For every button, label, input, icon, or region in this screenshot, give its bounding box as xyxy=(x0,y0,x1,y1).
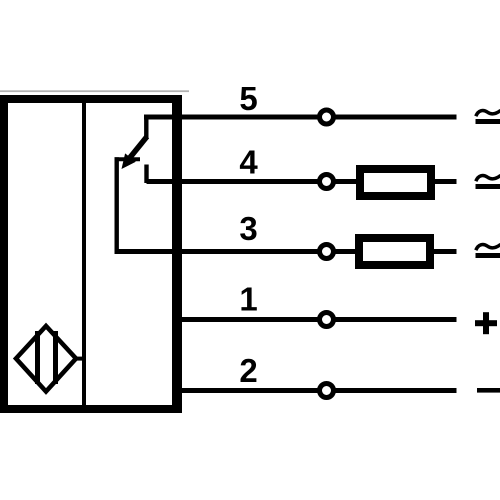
minus symbol at wire 2 xyxy=(477,388,500,393)
inductive sensor symbol (diamond) xyxy=(16,326,84,392)
wire 4 xyxy=(147,179,457,184)
svg-text:4: 4 xyxy=(239,144,258,181)
terminal circle pin 5 xyxy=(320,110,334,124)
AC symbol at wire 5 xyxy=(476,110,500,124)
terminal circle pin 3 xyxy=(320,245,334,259)
divider line inside sensor body xyxy=(82,103,86,405)
terminal circle pin 1 xyxy=(320,313,334,327)
svg-text:3: 3 xyxy=(239,210,257,247)
faint gray artifact line above sensor body xyxy=(0,90,189,92)
svg-text:1: 1 xyxy=(239,281,257,318)
load resistor on wire 3 xyxy=(359,238,430,265)
terminal circle pin 4 xyxy=(320,175,334,189)
load resistor on wire 4 xyxy=(360,169,431,196)
wire 2 xyxy=(177,388,457,393)
svg-text:2: 2 xyxy=(239,352,257,389)
wire 5 xyxy=(144,115,457,120)
sensor body outline xyxy=(0,95,182,413)
svg-text:5: 5 xyxy=(239,80,257,117)
switch arrowhead xyxy=(122,153,136,169)
contact stub to wire 4 xyxy=(144,165,148,184)
switch blade xyxy=(130,137,147,158)
wire 3 xyxy=(115,249,457,254)
contact stub from wire 5 xyxy=(144,115,148,139)
AC symbol at wire 3 xyxy=(476,244,500,258)
AC symbol at wire 4 xyxy=(476,175,500,189)
switch common vertical wire xyxy=(114,157,118,251)
wire 1 xyxy=(177,317,457,322)
plus symbol at wire 1 xyxy=(475,312,497,334)
terminal circle pin 2 xyxy=(320,384,334,398)
switch common bar xyxy=(115,157,141,161)
